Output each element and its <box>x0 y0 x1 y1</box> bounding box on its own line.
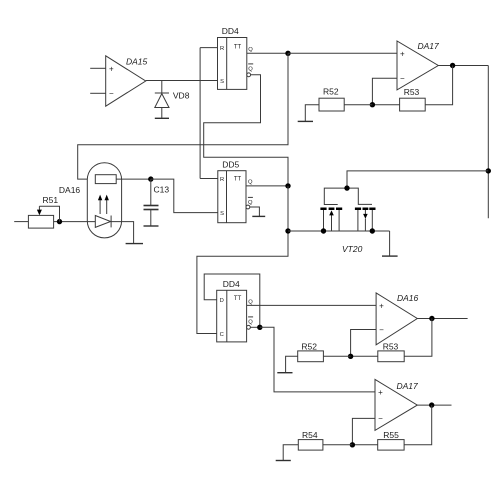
resistor R53 (bottom) <box>378 341 404 361</box>
svg-text:Q: Q <box>248 319 253 325</box>
wire DA16 output <box>417 318 467 320</box>
ground at VT20 <box>382 255 398 257</box>
junction DA17 output <box>450 63 455 68</box>
wire R54 left lead to ground <box>283 445 298 460</box>
wire DA17 output to right edge and down <box>487 66 489 219</box>
junction VT20 branch node <box>285 228 290 233</box>
svg-text:VT20: VT20 <box>342 244 363 254</box>
svg-text:DA15: DA15 <box>126 57 148 67</box>
inversion bubble DD4 Qbar <box>247 73 251 77</box>
svg-text:Q: Q <box>248 66 253 72</box>
junction DD5 Q node <box>285 183 290 188</box>
wire DA17 output <box>417 404 451 406</box>
svg-text:S: S <box>220 79 224 85</box>
wire DA17 feedback down <box>404 405 432 445</box>
junction DA17 output (bottom) <box>429 402 434 407</box>
capacitor C13 <box>144 179 170 226</box>
svg-text:R55: R55 <box>383 430 399 440</box>
junction R54 R55 node <box>350 442 355 447</box>
svg-text:DD4: DD4 <box>223 279 240 289</box>
svg-text:R: R <box>220 46 224 52</box>
wire DD5 Q output <box>246 185 288 187</box>
wire node A to DA17 noninverting input <box>288 52 397 54</box>
flip-flop DD5 <box>218 159 253 222</box>
wire DD4 Qbar to DD5 Q net <box>204 75 288 186</box>
svg-text:R54: R54 <box>302 430 318 440</box>
wire DD4 D input feedback from Qbar <box>204 274 260 327</box>
junction DA16 output <box>429 316 434 321</box>
junction R52 R53 node (bottom) <box>348 354 353 359</box>
wire R53 left lead <box>351 355 378 357</box>
svg-text:R53: R53 <box>404 87 420 97</box>
svg-text:DA17: DA17 <box>397 381 419 391</box>
wire DD5 Qbar to ground <box>250 207 260 216</box>
svg-text:DD4: DD4 <box>222 26 239 36</box>
LED inside DA16 <box>95 216 111 228</box>
wire R-net vertical DD4.R to DD5.R <box>199 48 201 179</box>
resistor R52 (top) <box>319 86 344 111</box>
ground below VD8 <box>155 117 169 119</box>
wire DA15 output to S input of DD4 <box>146 80 218 82</box>
wire R53 left lead to node <box>372 104 399 106</box>
svg-text:S: S <box>220 211 224 217</box>
wire R54 right lead <box>323 444 353 446</box>
wire DD4 Q output to DA16 noninverting input <box>247 304 377 306</box>
junction gate node <box>344 185 349 190</box>
junction R51 wiper node <box>57 219 62 224</box>
resistor R52 (bottom) <box>298 341 324 361</box>
inversion bubble DD4 Qbar (bottom) <box>247 325 251 329</box>
svg-text:−: − <box>109 89 114 98</box>
svg-text:−: − <box>400 74 405 83</box>
ground below C13 <box>144 225 159 227</box>
svg-text:+: + <box>378 388 383 397</box>
resistor element inside DA16 <box>95 175 116 184</box>
svg-text:TT: TT <box>234 296 242 302</box>
svg-text:+: + <box>379 302 384 311</box>
svg-text:DD5: DD5 <box>222 159 239 169</box>
wire DA16 feedback down <box>404 319 432 357</box>
svg-text:R51: R51 <box>43 195 59 205</box>
flip-flop DD4 (top) <box>218 26 254 89</box>
svg-text:DA16: DA16 <box>59 185 81 195</box>
ground at DD5 Qbar <box>252 215 265 217</box>
svg-text:DA16: DA16 <box>397 293 419 303</box>
wire DD5 Q net down to VT20 and DD4 C input <box>197 186 288 334</box>
resistor R53 (top) <box>400 87 426 111</box>
ground at R52 (bottom) <box>277 372 292 374</box>
node A junction DD4.Q <box>285 51 290 56</box>
junction right edge node <box>486 168 491 173</box>
wire R52 left lead to ground <box>305 105 319 121</box>
wire DD4 Qbar to node <box>250 326 259 328</box>
svg-text:R52: R52 <box>301 341 317 351</box>
svg-text:VD8: VD8 <box>173 90 190 100</box>
wire R51 node to LED anode <box>54 221 96 223</box>
wire VT20 rail to ground <box>389 231 391 256</box>
svg-text:C13: C13 <box>154 184 170 194</box>
wire Qbar node to DA17 bottom noninverting input <box>260 327 375 392</box>
wire R55 left lead <box>352 444 377 446</box>
wire DA16 inverting input to node <box>351 330 377 357</box>
svg-text:Q: Q <box>248 300 253 306</box>
junction Qbar node <box>257 325 262 330</box>
wire node A down and left to optocoupler resistor <box>78 53 288 179</box>
optocoupler arrow 1 <box>98 195 102 214</box>
wire R52 left lead to ground <box>286 356 298 372</box>
optocoupler DA16 <box>59 163 122 238</box>
wire VT20 bottom rail <box>288 230 390 232</box>
op-amp DA17 (top) <box>397 41 439 90</box>
svg-text:TT: TT <box>234 44 242 50</box>
svg-text:−: − <box>379 325 384 334</box>
svg-text:R: R <box>220 177 224 183</box>
flip-flop DD4 (bottom) <box>217 279 254 342</box>
ground at LED cathode <box>126 243 143 245</box>
wire C13 node to DD5 S input <box>151 179 218 213</box>
ground at R52 (top) <box>298 120 313 122</box>
wire R51 left free lead <box>14 221 28 223</box>
inversion bubble DD5 Qbar <box>246 205 250 209</box>
transistor pair VT20 <box>320 188 375 254</box>
wire DD4 Q output to node A <box>247 52 288 54</box>
junction C13 top node <box>148 176 153 181</box>
wire R52 right lead <box>344 104 372 106</box>
junction VT20 left source <box>321 228 326 233</box>
svg-text:R52: R52 <box>323 86 339 96</box>
junction R52 R53 inverting node <box>370 102 375 107</box>
svg-text:Q: Q <box>248 47 253 53</box>
wire LED cathode to ground <box>111 222 134 244</box>
diode VD8 <box>155 81 190 118</box>
resistor R54 <box>298 430 323 450</box>
op-amp DA15 <box>106 56 148 106</box>
wire DD4 R input <box>200 47 217 49</box>
svg-text:Q: Q <box>248 179 253 185</box>
wire DD5 R input <box>200 178 218 180</box>
wire DA17 feedback down <box>425 66 452 105</box>
svg-text:D: D <box>220 298 224 304</box>
wire R52 right lead <box>323 355 350 357</box>
ground at R54 <box>276 460 291 462</box>
svg-text:R53: R53 <box>383 341 399 351</box>
svg-text:TT: TT <box>234 177 242 183</box>
svg-text:+: + <box>400 50 405 59</box>
wire DA15 inverting input stub <box>90 92 106 94</box>
svg-text:+: + <box>109 64 114 73</box>
wire DA17 output <box>438 65 488 67</box>
resistor R55 <box>378 430 404 450</box>
wire DA17 inverting input to feedback node <box>372 78 397 105</box>
wire DA17 inverting input to node <box>352 418 375 444</box>
svg-text:C: C <box>220 332 224 338</box>
op-amp DA17 (bottom) <box>375 379 418 430</box>
wire resistor right lead to C13 node <box>116 178 151 180</box>
optocoupler arrow 2 <box>105 195 109 214</box>
svg-text:DA17: DA17 <box>418 41 440 51</box>
wire DA15 noninverting input stub <box>90 67 106 69</box>
wire right edge node to VT20 gates <box>347 171 488 188</box>
svg-text:−: − <box>378 414 383 423</box>
op-amp DA16 (bottom) <box>376 293 418 345</box>
junction VT20 right source <box>370 228 375 233</box>
potentiometer R51 <box>28 195 59 228</box>
